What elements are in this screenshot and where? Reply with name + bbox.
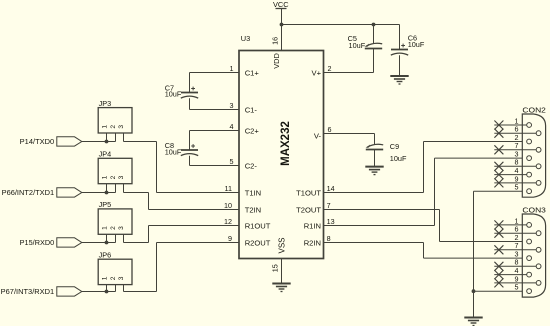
CON2 pin 7 no-connect xyxy=(494,141,541,154)
svg-text:10uF: 10uF xyxy=(349,41,366,50)
CON2 pin 4 no-connect xyxy=(494,166,531,179)
wire U3 V+ pin2 to C5 xyxy=(324,72,374,74)
wire JP5 pin3 to U3 R1OUT pin12 xyxy=(124,226,240,243)
svg-text:16: 16 xyxy=(270,37,279,45)
junction ground rail at CON3 pin5 xyxy=(472,289,476,293)
svg-text:9: 9 xyxy=(228,234,232,243)
junction JP4 pin 1 xyxy=(105,191,109,195)
CON3 pin 7 no-connect xyxy=(494,241,541,254)
svg-text:P67/INT3/RXD1: P67/INT3/RXD1 xyxy=(1,287,55,296)
svg-text:1: 1 xyxy=(102,226,109,230)
svg-text:JP3: JP3 xyxy=(99,99,112,108)
svg-text:C2+: C2+ xyxy=(245,126,260,135)
wire P15/RXD0 to JP5 pin 2 xyxy=(82,242,116,244)
svg-text:3: 3 xyxy=(118,276,125,280)
capacitor C8 xyxy=(165,131,199,166)
junction VCC node xyxy=(280,23,284,27)
capacitor C5 xyxy=(348,25,383,73)
jumper JP3 xyxy=(98,99,132,142)
CON2 pin 8 no-connect xyxy=(494,158,541,171)
svg-text:JP6: JP6 xyxy=(99,250,112,259)
svg-text:R2IN: R2IN xyxy=(304,238,321,247)
svg-text:C1-: C1- xyxy=(245,105,258,114)
svg-text:2: 2 xyxy=(110,175,117,179)
svg-text:JP5: JP5 xyxy=(99,200,112,209)
svg-text:R2OUT: R2OUT xyxy=(245,238,271,247)
wire CON2 pin5 to ground rail xyxy=(474,190,527,192)
CON3 pin 4 no-connect xyxy=(494,266,531,279)
svg-text:10uF: 10uF xyxy=(165,90,182,99)
jumper JP5 xyxy=(98,200,132,242)
wire ground rail vertical xyxy=(473,191,475,317)
svg-text:10: 10 xyxy=(224,201,232,210)
wire VCC rail to C5/C6 xyxy=(282,24,400,26)
svg-text:5: 5 xyxy=(230,157,234,166)
port flag P67/INT3/RXD1 xyxy=(1,287,82,296)
wire C7 to U3 pin 3 xyxy=(190,109,240,111)
wire U3 V- pin6 to C9 xyxy=(324,134,375,146)
wire U3 VSS pin15 xyxy=(281,259,283,284)
svg-text:C2-: C2- xyxy=(245,161,258,170)
svg-text:V+: V+ xyxy=(312,69,322,78)
CON2 pin 2 xyxy=(515,133,532,144)
svg-text:1: 1 xyxy=(102,276,109,280)
CON3 pin 6 no-connect xyxy=(494,225,541,238)
svg-text:10uF: 10uF xyxy=(390,154,407,163)
svg-text:2: 2 xyxy=(110,276,117,280)
svg-text:8: 8 xyxy=(327,234,331,243)
wire C7 to U3 pin 1 xyxy=(190,72,240,74)
power flag VCC xyxy=(273,0,289,25)
wire P66/INT2/TXD1 to JP4 pin 2 xyxy=(82,192,116,194)
junction JP3 pin 1 xyxy=(105,140,109,144)
port flag P14/TXD0 xyxy=(20,137,82,146)
connector CON3 shell xyxy=(522,206,546,297)
CON3 pin 2 xyxy=(515,233,532,244)
CON2 pin 3 xyxy=(515,150,532,161)
capacitor C9 xyxy=(366,142,407,166)
wire C8 to U3 pin 4 xyxy=(190,130,240,132)
svg-text:T2IN: T2IN xyxy=(245,205,261,214)
svg-text:U3: U3 xyxy=(241,34,250,43)
svg-text:VCC: VCC xyxy=(273,0,289,9)
svg-text:10uF: 10uF xyxy=(165,147,182,156)
wire JP3 pin3 to U3 T1IN pin11 xyxy=(124,142,240,193)
ground below U3 pin 15 xyxy=(272,284,290,292)
CON2 pin 5 xyxy=(515,183,532,194)
wire C8 to U3 pin 5 xyxy=(190,165,240,167)
svg-text:P15/RXD0: P15/RXD0 xyxy=(20,238,55,247)
svg-text:VSS: VSS xyxy=(278,237,287,253)
port flag P15/RXD0 xyxy=(20,238,82,247)
svg-text:5: 5 xyxy=(515,283,519,292)
capacitor C6 xyxy=(391,25,425,76)
wire U3 R1IN pin13 to CON2 pin3 xyxy=(324,158,527,225)
svg-text:1: 1 xyxy=(102,175,109,179)
svg-text:P66/INT2/TXD1: P66/INT2/TXD1 xyxy=(2,188,55,197)
svg-text:2: 2 xyxy=(110,125,117,129)
wire P67/INT3/RXD1 to JP6 pin 2 xyxy=(82,291,116,293)
svg-text:1: 1 xyxy=(102,125,109,129)
connector CON2 shell xyxy=(522,106,546,198)
svg-text:T1OUT: T1OUT xyxy=(296,188,321,197)
CON3 pin 1 no-connect xyxy=(494,216,531,229)
wire VCC to U3 pin 16 xyxy=(281,25,283,51)
junction JP5 pin 1 xyxy=(105,241,109,245)
U3 pin names xyxy=(245,53,322,253)
svg-text:T2OUT: T2OUT xyxy=(296,205,321,214)
svg-text:MAX232: MAX232 xyxy=(280,121,292,166)
svg-text:3: 3 xyxy=(118,125,125,129)
CON3 pin 5 xyxy=(515,283,532,294)
svg-text:P14/TXD0: P14/TXD0 xyxy=(20,137,55,146)
wire JP6 pin3 to U3 R2OUT pin9 xyxy=(124,243,240,292)
svg-text:C1+: C1+ xyxy=(245,69,260,78)
svg-text:3: 3 xyxy=(118,175,125,179)
junction C5 top xyxy=(372,23,376,27)
ground below C6 xyxy=(390,76,408,84)
svg-text:VDD: VDD xyxy=(272,53,281,69)
U3 pin numbers xyxy=(224,37,335,272)
svg-text:14: 14 xyxy=(327,184,335,193)
wire JP4 pin3 to U3 T2IN pin10 xyxy=(124,193,240,210)
ground bottom right xyxy=(464,318,482,326)
svg-text:2: 2 xyxy=(328,64,332,73)
CON3 pin 8 no-connect xyxy=(494,258,541,271)
junction JP6 pin 1 xyxy=(105,290,109,294)
svg-text:JP4: JP4 xyxy=(99,150,112,159)
svg-text:C9: C9 xyxy=(390,142,399,151)
svg-text:CON2: CON2 xyxy=(522,106,546,115)
port flag P66/INT2/TXD1 xyxy=(2,188,82,197)
svg-text:5: 5 xyxy=(515,183,519,192)
svg-text:12: 12 xyxy=(224,217,232,226)
svg-text:1: 1 xyxy=(230,64,234,73)
svg-text:3: 3 xyxy=(230,101,234,110)
svg-text:R1IN: R1IN xyxy=(304,221,321,230)
svg-text:7: 7 xyxy=(327,201,331,210)
jumper JP6 xyxy=(98,250,132,291)
svg-text:10uF: 10uF xyxy=(408,40,425,49)
svg-text:3: 3 xyxy=(118,226,125,230)
svg-text:CON3: CON3 xyxy=(522,206,546,215)
CON2 pin 6 no-connect xyxy=(494,125,541,138)
svg-text:2: 2 xyxy=(110,226,117,230)
svg-text:T1IN: T1IN xyxy=(245,188,261,197)
CON2 pin 9 no-connect xyxy=(494,174,541,187)
svg-text:R1OUT: R1OUT xyxy=(245,221,271,230)
wire P14/TXD0 to JP3 pin 2 xyxy=(82,141,116,143)
wire U3 T2OUT pin7 to CON3 pin2 xyxy=(324,210,527,242)
jumper JP4 xyxy=(98,150,132,193)
svg-text:V-: V- xyxy=(314,131,322,140)
svg-text:4: 4 xyxy=(230,122,234,131)
capacitor C7 xyxy=(165,73,199,110)
CON2 pin 1 no-connect xyxy=(494,116,531,129)
IC U3 MAX232 body xyxy=(239,34,324,259)
svg-text:11: 11 xyxy=(225,184,232,193)
svg-text:13: 13 xyxy=(327,217,335,226)
CON3 pin 9 no-connect xyxy=(494,274,541,287)
wire CON3 pin5 to ground rail xyxy=(474,290,527,292)
svg-text:6: 6 xyxy=(328,125,332,134)
wire U3 R2IN pin8 to CON3 pin3 xyxy=(324,243,527,259)
svg-text:15: 15 xyxy=(270,264,279,272)
ground below C9 xyxy=(365,167,383,175)
wire U3 T1OUT pin14 to CON2 pin2 xyxy=(324,142,527,193)
CON3 pin 3 xyxy=(515,250,532,261)
